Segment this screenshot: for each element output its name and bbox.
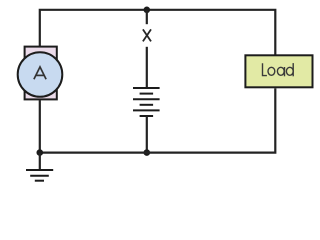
- wire: ammeter bottom to ground junction: [39, 100, 41, 152]
- wire: left riser and top rail (ammeter top to node X): [40, 10, 147, 47]
- ground symbol line 1 (long): [26, 169, 53, 171]
- wire: stub from ground junction down to ground symbol: [39, 153, 41, 170]
- battery B1 plate 5 (long, +): [133, 109, 160, 111]
- o: [268, 67, 275, 75]
- battery B1 plate 6 (short, -): [140, 115, 154, 117]
- battery B1 plate 2 (short, -): [140, 93, 154, 95]
- node label X: [143, 29, 151, 41]
- junction dot: battery to bottom rail: [144, 149, 151, 156]
- ground symbol line 3 (short): [35, 180, 44, 182]
- load label "Load" drawn as paths: L: [263, 63, 294, 76]
- wire: battery bottom to bottom rail: [146, 116, 148, 153]
- d bowl: [286, 67, 293, 75]
- ground symbol line 2 (medium): [30, 175, 49, 177]
- ammeter label A: [34, 67, 46, 79]
- ammeter A meter circle: [18, 52, 63, 97]
- d stem: [292, 63, 294, 76]
- wire: top rail right and right riser down to Load: [147, 10, 275, 55]
- wire: stub from label X down to battery: [146, 47, 148, 88]
- ammeter A body rectangle: [25, 47, 57, 100]
- junction node X dot: [144, 7, 151, 14]
- battery B1 plate 1 (long, +): [133, 87, 160, 89]
- junction dot: ground node: [37, 149, 44, 156]
- battery B1 plate 4 (short, -): [140, 104, 154, 106]
- wire: right riser from Load bottom and bottom rail: [40, 88, 275, 152]
- battery B1 plate 3 (long, +): [133, 98, 160, 100]
- wire: stub from node X dot down: [146, 10, 148, 24]
- a stem: [284, 67, 286, 76]
- a bowl: [277, 67, 284, 75]
- load box: [245, 55, 312, 87]
